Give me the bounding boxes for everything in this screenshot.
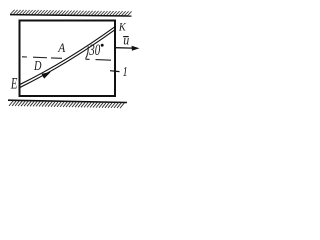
macron over u — [123, 36, 129, 38]
rod EK upper line — [20, 27, 116, 85]
ceiling line — [10, 15, 132, 16]
floor hatching — [9, 101, 124, 109]
svg-text:E: E — [10, 76, 18, 93]
ceiling hatching — [11, 10, 132, 16]
floor line — [8, 100, 127, 102]
svg-text:D: D — [33, 58, 41, 73]
svg-text:A: A — [57, 40, 65, 55]
svg-text:u: u — [123, 32, 129, 47]
vector u arrowhead — [132, 46, 140, 51]
tick for wall label 1 — [110, 70, 120, 73]
wire dashed horizontal reference line — [22, 57, 111, 60]
svg-text:30: 30 — [89, 42, 101, 59]
degree dot — [101, 44, 104, 47]
frame rectangle — [20, 21, 116, 97]
rod EK lower line — [20, 30, 116, 88]
angle arc 30 — [86, 46, 89, 58]
arrowhead D on rod — [42, 72, 50, 78]
vector u arrow — [115, 47, 133, 49]
svg-text:1: 1 — [123, 64, 128, 79]
